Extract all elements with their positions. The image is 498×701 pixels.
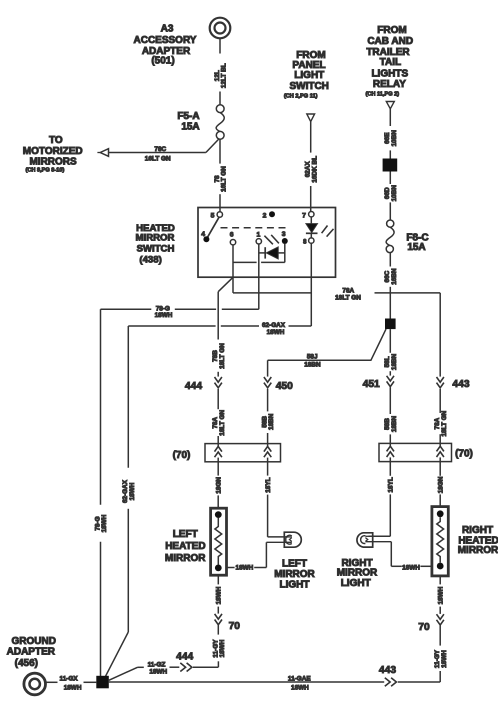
connector 70 right chevrons [418,614,444,633]
svg-text:15A: 15A [181,122,199,133]
svg-text:70: 70 [418,622,430,633]
wire 11-GY 18WH left [212,625,226,667]
svg-text:18WH: 18WH [441,650,448,668]
wire 18GN right [437,462,444,507]
svg-text:4: 4 [201,231,205,238]
svg-text:A3: A3 [161,24,174,35]
wire 58B 18BN left [262,389,276,444]
fuse F5-A 15A [177,105,224,139]
svg-text:58J: 58J [307,353,318,360]
connector (70) right box [379,443,473,461]
svg-text:443: 443 [379,665,396,676]
left heated mirror body [211,508,227,575]
wire 66E 10BN [384,109,398,159]
label GROUND ADAPTER (456) [7,636,56,669]
wire 62-GAX diagonal to ground [106,632,129,676]
connector A3 accessory adapter (501) symbol [210,18,231,39]
svg-text:LIGHTS: LIGHTS [371,68,408,79]
svg-text:MIRROR: MIRROR [337,568,378,579]
svg-text:(70): (70) [455,449,473,460]
wire 11-GY 18WH right [434,625,448,682]
right mirror light lamp [357,533,373,547]
wire 78B 18LT GN [212,292,226,377]
wire 78C 16LT GN [109,139,220,163]
svg-text:18BN: 18BN [268,413,275,430]
svg-text:F5-A: F5-A [177,111,199,122]
wire 78A 18LT GN right drop [434,389,448,444]
connector 450 chevrons [264,377,293,392]
svg-text:CAB AND: CAB AND [367,36,413,47]
svg-text:443: 443 [452,379,469,390]
wire 66D 10BN [384,172,398,221]
svg-text:18YL: 18YL [265,477,272,492]
wire 78 16LT GN [214,139,228,212]
switch body heated mirror switch [198,208,336,278]
right mirror heater resistor [437,517,444,562]
right mirror top terminal [437,510,444,517]
wire 78-G 18WH horizontal [101,306,259,319]
arrow from panel light switch [307,114,315,122]
svg-text:TO: TO [49,135,63,146]
svg-text:18WH: 18WH [236,565,254,572]
pin 8 [303,238,314,245]
svg-text:18LT GN: 18LT GN [219,343,226,369]
label LEFT MIRROR LIGHT [274,559,315,591]
svg-text:LIGHT: LIGHT [341,578,371,589]
svg-text:ADAPTER: ADAPTER [7,646,56,657]
wire 78A 18LT GN left drop [212,389,226,444]
right heated mirror body [432,507,448,576]
svg-text:LIGHT: LIGHT [294,70,324,81]
svg-text:LIGHT: LIGHT [280,580,310,591]
pin 4 [201,231,209,242]
svg-text:TAIL: TAIL [380,57,401,68]
svg-text:18LT GN: 18LT GN [219,410,226,436]
svg-text:16LT GN: 16LT GN [221,166,228,192]
svg-text:18WH: 18WH [155,312,173,319]
svg-text:18BN: 18BN [304,361,321,368]
hatch marks near pins 1-3 [264,235,279,244]
pin 6 [230,231,236,245]
right mirror bottom terminal [437,563,444,570]
pin 5 [211,212,223,220]
svg-text:18WH: 18WH [64,684,82,691]
svg-text:18WH: 18WH [219,639,226,657]
svg-text:RELAY: RELAY [373,79,406,90]
wire 62-GAX 18WH left vertical [122,326,136,632]
connector (70) left pin arrows [215,444,272,462]
arrow to motorized mirrors [97,149,108,157]
svg-text:7: 7 [302,212,306,219]
svg-text:(501): (501) [151,56,174,67]
right lamp terminal wires [365,536,391,566]
label TO MOTORIZED MIRRORS [23,135,83,173]
svg-text:8: 8 [303,239,307,245]
pin 3 internal wire [284,244,286,263]
ground junction (black square) [96,676,109,689]
svg-text:1: 1 [257,231,261,238]
label LEFT HEATED MIRROR [165,529,206,564]
svg-text:18WH: 18WH [437,586,444,604]
wire 62AX 16DK BL [305,122,319,212]
svg-text:(70): (70) [173,450,191,461]
svg-text:2: 2 [263,212,267,219]
svg-text:444: 444 [176,652,193,663]
pin 2 [263,211,275,219]
svg-text:18GN: 18GN [437,476,444,493]
wire 18WH left lamp return [227,565,267,572]
svg-text:SWITCH: SWITCH [289,81,328,92]
svg-text:70: 70 [229,621,241,632]
pin 1 [256,231,261,244]
wire 58J 18BN [268,329,386,368]
wire 18WH below left mirror [216,575,223,613]
arrow from cab and trailer tail lights relay [386,102,394,109]
wire 18YL right [369,462,395,537]
svg-text:(438): (438) [139,254,161,265]
svg-text:18LT GN: 18LT GN [335,295,361,302]
svg-text:18LT GN: 18LT GN [441,410,448,436]
ground adapter (456) symbol [24,673,46,695]
wire 18GN left [215,462,222,508]
svg-text:MIRROR: MIRROR [165,553,206,564]
svg-text:3: 3 [282,231,286,238]
svg-text:(CH 8,PG 8-10): (CH 8,PG 8-10) [25,168,64,174]
pin 7 [302,212,314,220]
LED light rays [322,226,334,237]
left mirror light lamp [284,532,301,547]
svg-text:(456): (456) [15,658,38,669]
svg-text:FROM: FROM [377,25,406,36]
left mirror bottom terminal [215,565,222,572]
wire jog pin6 to 78B [218,277,233,291]
svg-text:18WH: 18WH [216,586,223,604]
svg-text:12LT BL: 12LT BL [221,63,228,88]
label RIGHT HEATED MIRROR [458,525,498,556]
connector 70 left chevrons [215,614,241,632]
svg-text:451: 451 [363,379,380,390]
svg-text:10BN: 10BN [391,130,398,147]
svg-text:18WH: 18WH [402,564,420,571]
wire 66C 16BN [384,253,398,319]
wire 11-GX 18WH [45,676,96,692]
pin 3 [282,231,288,244]
mechanical coupling dashed line [221,227,288,229]
svg-text:16DK BL: 16DK BL [311,156,318,183]
wire from pin 6 down [232,245,234,293]
indicator LED between pin 7 and 8 [306,217,318,238]
wire 18YL left [265,462,288,537]
connector (70) right pin arrows [387,443,444,461]
svg-text:444: 444 [185,381,202,392]
svg-text:18WH: 18WH [129,482,136,500]
diode between pin 1 and pin 3 [259,247,285,259]
connector 451 chevrons [363,376,394,390]
svg-text:18YL: 18YL [388,477,395,492]
svg-text:18BN: 18BN [391,415,398,432]
wire 18WH below right mirror [437,576,444,614]
svg-text:18GN: 18GN [215,477,222,494]
label HEATED MIRROR SWITCH (438) [136,223,175,265]
svg-text:GROUND: GROUND [11,636,55,647]
svg-text:16LT GN: 16LT GN [145,156,171,163]
wire 78-G 18WH left vertical [94,309,108,676]
connector 443 upper chevrons [437,377,470,390]
switch blade pin4-pin5 [206,217,219,239]
svg-text:LEFT: LEFT [282,559,307,570]
svg-text:450: 450 [276,381,293,392]
wire 11-GZ 18WH [109,652,219,681]
svg-text:SWITCH: SWITCH [137,243,175,254]
svg-text:78C: 78C [154,146,166,153]
svg-text:18WH: 18WH [291,684,309,691]
svg-text:LEFT: LEFT [173,529,198,540]
wire pin 1 down [258,244,260,309]
svg-text:5: 5 [211,212,215,219]
junction node lower (black square) [385,319,396,330]
svg-text:MIRROR: MIRROR [136,233,175,244]
wire 58B 18BN right [384,387,398,443]
label FROM CAB AND TRAILER TAIL LIGHTS RELAY [366,25,414,98]
svg-text:10BN: 10BN [391,185,398,202]
wire 58J drop to 450 [267,360,269,376]
wire pin 8 down [310,243,312,326]
svg-text:18BN: 18BN [391,353,398,370]
label FROM PANEL LIGHT SWITCH [284,50,329,99]
fuse F8-C 15A [386,220,429,253]
svg-text:18WH: 18WH [267,329,285,336]
pin6 to pin3 internal wire [233,261,285,263]
svg-text:(CH 2,PG 11): (CH 2,PG 11) [284,94,318,100]
svg-text:11-GX: 11-GX [60,676,79,683]
svg-text:15A: 15A [407,242,425,253]
wire 12L 12LT BL [214,38,228,105]
wire 62-GAX 18WH horizontal [128,322,311,336]
svg-text:16BN: 16BN [391,268,398,285]
svg-text:ACCESSORY: ACCESSORY [134,35,197,46]
label A3 ACCESSORY ADAPTER (501) [134,24,197,67]
svg-text:6: 6 [230,231,234,238]
svg-text:(CH 11,PG 2): (CH 11,PG 2) [366,92,400,98]
svg-text:18WH: 18WH [101,514,108,532]
svg-text:MOTORIZED: MOTORIZED [23,146,83,157]
connector 444 chevrons [185,377,222,392]
svg-text:HEATED: HEATED [165,541,205,552]
junction connector upper (black square) [383,159,398,172]
svg-text:MIRROR: MIRROR [274,569,315,580]
wire 78A 18LT GN horizontal [233,287,440,301]
label RIGHT MIRROR LIGHT [337,558,378,589]
connector (70) left box [173,444,281,462]
left mirror top terminal [215,511,222,518]
connector 443 lower chevrons [379,665,396,686]
wire 11-GAE 18WH ground bus [109,675,440,691]
wire 18WH right lamp return [391,564,432,571]
wire 58L 18BN [384,329,398,376]
wire 78A right vertical [439,293,441,377]
svg-text:11-GAE: 11-GAE [288,675,311,682]
svg-text:MIRROR: MIRROR [458,545,498,556]
svg-text:18WH: 18WH [149,668,167,675]
left lamp terminal wires [266,537,291,568]
svg-text:MIRRORS: MIRRORS [29,156,77,167]
left mirror heater resistor [215,518,222,565]
svg-text:78A: 78A [342,287,354,294]
